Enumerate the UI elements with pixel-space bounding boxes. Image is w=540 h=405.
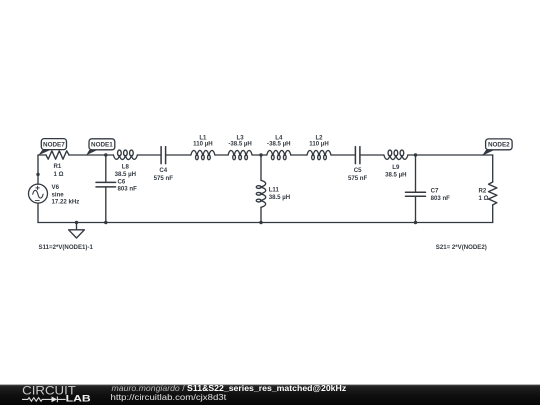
wire R2 to bottom rail [492, 205, 494, 223]
logo diode symbol [52, 397, 58, 403]
capacitor C7 [406, 192, 426, 196]
inductor L4 [267, 150, 291, 159]
voltage source V6 [29, 184, 48, 203]
svg-text:110 µH: 110 µH [193, 140, 212, 147]
svg-text:S21= 2*V(NODE2): S21= 2*V(NODE2) [436, 244, 487, 251]
svg-text:V6: V6 [52, 184, 60, 191]
wire C6 branch top [105, 155, 107, 182]
wire bottom ground rail [38, 222, 493, 224]
inductor L11 [256, 180, 266, 207]
svg-text:38.5 µH: 38.5 µH [269, 194, 290, 201]
net flag NODE7 pointer [38, 150, 51, 156]
svg-text:S11=2*V(NODE1)-1: S11=2*V(NODE1)-1 [39, 244, 94, 251]
junction dot C6 bottom [104, 221, 107, 224]
ground stem wire [76, 223, 78, 230]
svg-text:L11: L11 [269, 187, 280, 194]
capacitor C4 [161, 147, 166, 164]
inductor L3 [228, 150, 252, 159]
wire left vertical to V6 plus terminal [37, 155, 39, 184]
junction dot V6 top terminal [36, 173, 39, 176]
inductor L1 [191, 150, 215, 159]
capacitor C6 [96, 182, 116, 187]
wire C7 branch bottom [415, 197, 417, 223]
svg-text:17.22 kHz: 17.22 kHz [52, 199, 80, 206]
capacitor C5 [355, 147, 360, 164]
wire R1 to NODE1/C6 junction [69, 154, 113, 156]
junction dot NODE1 / C6 top [104, 153, 107, 156]
svg-text:http://circuitlab.com/cjx8d3t: http://circuitlab.com/cjx8d3t [111, 392, 228, 402]
resistor R2 [489, 182, 497, 205]
svg-text:R1: R1 [54, 163, 62, 170]
wire C5 to L9 [360, 154, 384, 156]
wire L11 branch bottom [260, 207, 262, 222]
svg-text:-38.5 µH: -38.5 µH [228, 140, 252, 147]
wire C6 branch bottom [105, 187, 107, 222]
wire L4 to L2 [291, 154, 307, 156]
junction dot L11 bottom [259, 221, 262, 224]
wire L1 to L3 [215, 154, 228, 156]
net flag NODE1 box [89, 139, 115, 150]
wire C7 branch top [415, 155, 417, 192]
wire L9 to top-right corner [408, 154, 493, 156]
wire L8 to C4 [137, 154, 160, 156]
svg-text:1 Ω: 1 Ω [479, 195, 489, 202]
wire L3 to L11 junction [252, 154, 267, 156]
wire top-left corner to R1 [38, 154, 46, 156]
svg-text:-38.5 µH: -38.5 µH [267, 140, 291, 147]
junction dot L11 top [259, 153, 262, 156]
wire right vertical top to R2 [492, 155, 494, 182]
svg-text:NODE1: NODE1 [91, 142, 113, 149]
junction dot C7 top [414, 153, 417, 156]
resistor R1 [46, 151, 69, 159]
svg-text:38.5 µH: 38.5 µH [115, 171, 136, 178]
svg-text:575 nF: 575 nF [154, 175, 174, 182]
svg-text:L8: L8 [122, 164, 130, 171]
svg-text:R2: R2 [479, 188, 487, 195]
svg-text:sine: sine [52, 192, 65, 199]
logo resistor-diode glyph [22, 397, 66, 403]
wire L11 branch top [260, 155, 262, 180]
svg-text:38.5 µH: 38.5 µH [385, 172, 406, 179]
svg-text:NODE2: NODE2 [488, 142, 510, 149]
svg-text:C5: C5 [354, 167, 362, 174]
svg-text:C7: C7 [431, 188, 439, 195]
net flag NODE7 box [41, 139, 66, 150]
net flag NODE2 box [486, 139, 512, 150]
svg-text:1 Ω: 1 Ω [54, 171, 64, 178]
svg-text:C6: C6 [118, 179, 126, 186]
svg-text:110 µH: 110 µH [309, 140, 328, 147]
svg-text:NODE7: NODE7 [43, 141, 65, 148]
inductor L2 [307, 150, 331, 159]
net flag NODE2 pointer [482, 150, 494, 156]
inductor L9 [384, 150, 408, 160]
wire L2 to C5 [331, 154, 355, 156]
svg-text:803 nF: 803 nF [431, 195, 451, 202]
wire C4 to L1 [166, 154, 191, 156]
inductor L8 [113, 150, 137, 160]
net flag NODE1 pointer [86, 150, 97, 155]
svg-text:803 nF: 803 nF [118, 186, 138, 193]
svg-text:C4: C4 [159, 167, 167, 174]
junction dot C7 bottom [414, 221, 417, 224]
ground symbol [69, 230, 85, 238]
svg-text:L9: L9 [392, 164, 400, 171]
svg-text:575 nF: 575 nF [348, 175, 368, 182]
junction dot ground [75, 221, 78, 224]
svg-text:LAB: LAB [66, 394, 92, 404]
wire V6 minus terminal to rail [37, 203, 39, 222]
